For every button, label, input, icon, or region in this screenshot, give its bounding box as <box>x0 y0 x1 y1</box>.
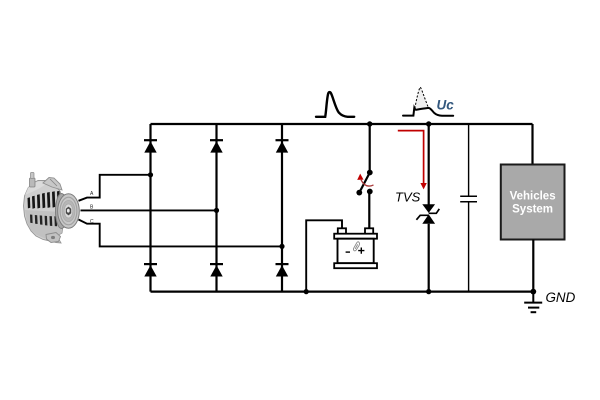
diode D2 (upper leg2) <box>210 140 223 152</box>
housing shading <box>25 210 62 241</box>
rear housing <box>24 181 64 244</box>
alternator G1 <box>24 173 80 244</box>
capacitor C1 branch <box>468 124 470 292</box>
wire top rail <box>151 123 533 125</box>
wire bridge leg 1 <box>149 124 151 292</box>
battery BT1 <box>334 228 377 268</box>
top cap <box>334 234 377 239</box>
svg-text:GND: GND <box>546 290 576 305</box>
switch S1 <box>356 170 372 196</box>
body <box>338 239 374 264</box>
pulley drum side <box>60 194 69 228</box>
phase wire C <box>79 220 283 247</box>
node B junction <box>214 208 219 213</box>
wire bridge leg 3 <box>281 124 283 292</box>
svg-text:C: C <box>90 219 94 225</box>
clamped pulse fill (right) <box>415 87 429 109</box>
switch S1 branch wire (top) <box>369 124 371 172</box>
wire bottom rail <box>151 291 534 293</box>
spark glyph <box>353 242 359 251</box>
hub nut <box>66 207 71 216</box>
node C junction <box>279 244 284 249</box>
wire top rail corner to vehicles system <box>531 124 533 165</box>
switch top rail junction <box>367 121 372 126</box>
diode D6 (lower leg3) <box>276 264 289 276</box>
diode D5 (lower leg2) <box>210 264 223 276</box>
left terminal <box>338 228 346 234</box>
diode D4 (lower leg1) <box>144 264 157 276</box>
plus label <box>358 248 364 254</box>
svg-text:Vehicles: Vehicles <box>510 191 556 203</box>
wire vehicles system to ground <box>532 240 534 292</box>
wire bridge leg 2 <box>215 124 217 292</box>
vehicles system box <box>501 165 565 240</box>
right terminal <box>365 228 373 234</box>
top stud <box>30 178 36 187</box>
top-right bracket arm <box>43 178 62 191</box>
surge pulse waveform (left) <box>316 92 354 117</box>
svg-text:TVS: TVS <box>395 190 421 205</box>
battery ground junction <box>304 289 309 294</box>
red surge arrow to TVS <box>398 131 427 190</box>
TVS branch wire <box>428 124 430 292</box>
minus label <box>346 251 350 253</box>
clamped pulse solid waveform <box>403 108 453 116</box>
clamped pulse dashed peak <box>415 87 429 108</box>
bottom cap <box>334 263 377 268</box>
svg-text:Uc: Uc <box>437 98 455 113</box>
diode D1 (upper leg1) <box>144 140 157 152</box>
wire battery left to ground rail <box>306 220 342 291</box>
TVS top rail junction <box>426 121 431 126</box>
pulley rear flange <box>56 194 68 229</box>
node A junction <box>148 172 153 177</box>
phase wire A <box>79 175 151 201</box>
ground symbol <box>524 292 542 313</box>
switch red opening arrow <box>357 174 373 186</box>
diode D3 (upper leg3) <box>276 140 289 152</box>
bottom mounting ear <box>46 233 61 243</box>
pulley front face <box>58 194 80 228</box>
TVS diode Z1 <box>416 204 439 224</box>
phase wire B <box>81 209 217 211</box>
wire switch to battery <box>368 192 370 229</box>
vent slots lower row <box>30 215 57 227</box>
svg-text:System: System <box>512 204 553 216</box>
TVS bottom rail junction <box>426 289 431 294</box>
vent slots upper row <box>28 191 61 209</box>
ground junction <box>530 289 536 295</box>
capacitor C1 plates <box>460 196 477 202</box>
